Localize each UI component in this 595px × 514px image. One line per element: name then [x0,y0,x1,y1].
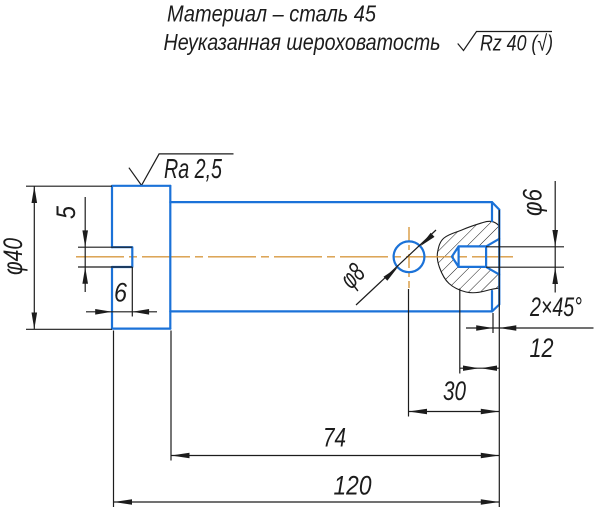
hole phi8 circle [394,241,425,272]
svg-text:12: 12 [530,333,554,363]
svg-text:30: 30 [443,376,466,406]
dimension 74 arrows [171,453,499,458]
svg-text:74: 74 [323,423,346,453]
dimension phi6 arrows [552,230,558,284]
extension line right common [498,210,500,507]
dimension 5 extension lines [78,247,132,267]
svg-text:Материал – сталь 45: Материал – сталь 45 [167,1,376,27]
head right face [169,186,171,329]
dimension 6 line [86,311,157,313]
svg-text:Неуказанная шероховатость: Неуказанная шероховатость [164,29,441,55]
dimension 30 extension line [408,289,410,417]
hole void (white) [452,239,500,275]
dimension 74 extension line [170,331,172,461]
dimension 6 arrows [95,309,149,315]
centerline of hole phi8 (vertical) [408,227,410,288]
svg-text:φ40: φ40 [0,238,28,275]
surface roughness mark Ra 2,5 leader [129,154,234,186]
dimension 120 arrows [114,499,500,504]
svg-text:φ6: φ6 [518,188,548,216]
head outline (large diameter) [112,186,170,329]
dimension phi8 leader line [356,230,436,305]
dimension 120 extension line left [113,331,115,508]
dimension 5 arrows [82,230,88,283]
dimension phi40 extension lines [26,186,112,329]
dimension 5 line [84,197,86,292]
dimension 6 extension line [131,267,133,317]
roughness symbol Rz 40 check mark [458,32,552,51]
body outline (shaft) [170,202,499,311]
chamfer dimension arrows [476,325,516,331]
svg-text:5: 5 [51,205,81,219]
dimension 30 line [409,411,500,413]
slot in head [112,247,132,267]
svg-text:φ8: φ8 [334,257,371,294]
dimension 12 extension line [459,289,461,374]
svg-text:2×45°: 2×45° [529,292,582,322]
dimension phi40 line [33,186,35,329]
chamfer dimension line [466,327,594,329]
svg-text:120: 120 [334,471,372,501]
chamfer dimension extension line [492,313,494,333]
centerline main axis [76,256,513,258]
dimension phi6 line [554,181,556,293]
dimension phi40 arrows [32,186,38,329]
dimension 12 line [460,367,499,369]
dimension 12 arrows [463,366,497,371]
dimension 74 line [171,455,499,457]
svg-text:Ra 2,5: Ra 2,5 [164,153,222,184]
hole phi6 outline [452,239,499,275]
hatched broken-out section blob [437,221,499,292]
svg-text:Rz 40 (√): Rz 40 (√) [480,31,553,56]
dimension phi8 arrows [384,233,435,281]
dimension 120 line [114,501,500,503]
chamfer line segments [491,202,493,311]
svg-text:6: 6 [114,278,128,308]
dimension phi6 extension lines [486,247,564,267]
dimension 30 arrows [409,409,500,414]
